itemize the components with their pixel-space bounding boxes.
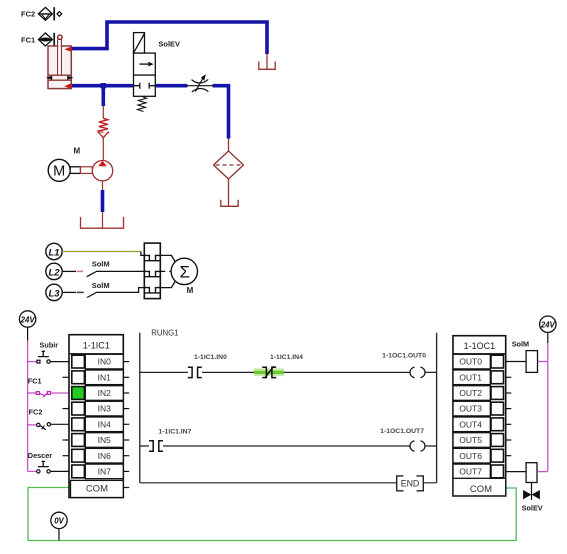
svg-text:OUT2: OUT2 [459,388,482,398]
wire L2 with red mark [62,270,76,272]
svg-text:OUT5: OUT5 [459,435,482,445]
input module row IN0 [85,354,123,369]
input module row IN7 [85,464,123,479]
svg-text:1-1OC1: 1-1OC1 [464,341,496,351]
svg-text:RUNG1: RUNG1 [151,328,178,337]
svg-text:M: M [187,286,194,295]
svg-text:OUT3: OUT3 [459,404,482,414]
ladder right rail [436,333,438,483]
svg-text:OUT6: OUT6 [459,451,482,461]
output module row OUT3 [453,401,490,416]
motor M1 (sigma) [171,258,197,284]
wire: magenta bus left [27,341,29,472]
ladder bottom wire [140,482,437,484]
input module row IN1 [85,370,123,385]
svg-text:END: END [401,479,420,489]
wire: magenta bus right [547,343,549,472]
contact 1-1IC1.IN7 [149,441,153,451]
input module row IN3 [85,401,123,416]
output module row OUT5 [453,433,490,448]
overload element row 3 [144,288,160,293]
node: junction dot on bottom hose [101,83,106,88]
relief line red [102,106,104,118]
svg-text:OUT1: OUT1 [459,372,482,382]
svg-text:IN4: IN4 [98,419,112,429]
svg-text:24V: 24V [540,321,556,330]
svg-text:FC1: FC1 [21,35,35,44]
wire: stub under 24V [27,327,29,340]
svg-text:Σ: Σ [180,263,191,282]
input module COM row [71,480,124,497]
cylinder C1 body [48,46,71,89]
terminal L1 [46,243,62,259]
contact SolM on L2 [87,272,96,277]
rung 1 wire [140,371,437,373]
check seat V [99,133,108,138]
svg-text:M: M [53,164,65,180]
svg-text:OUT4: OUT4 [459,419,482,429]
END block [397,476,404,491]
output module row OUT1 [453,370,490,385]
svg-text:IN0: IN0 [98,357,112,367]
svg-text:OUT0: OUT0 [459,357,482,367]
overload element row 1 [144,255,160,260]
cam arrow right (black) [67,76,73,80]
wire L3 with navy mark [62,291,76,293]
svg-text:L2: L2 [48,267,60,278]
svg-text:L1: L1 [48,248,59,259]
overload relay block [144,243,160,299]
wire: blue hose flow control to filter [213,86,229,139]
svg-text:SolM: SolM [92,260,110,269]
input module row IN6 [85,448,123,463]
cylinder rod tip circle [58,35,62,39]
cam arrow left (black) [46,76,52,80]
input module row IN4 [85,417,123,432]
svg-text:IN1: IN1 [98,372,112,382]
cylinder piston [48,75,71,80]
svg-text:24V: 24V [20,315,36,324]
svg-text:FC1: FC1 [28,376,42,385]
svg-text:IN3: IN3 [98,404,112,414]
svg-text:SolM: SolM [512,339,529,348]
wire: blue hose cylinder top port to upper tank [72,22,267,54]
svg-text:Descer: Descer [28,451,53,460]
coupling motor-pump [70,167,80,174]
svg-text:FC2: FC2 [29,407,43,416]
power supply 24V left [19,311,35,327]
solenoid SolEV output [506,471,526,473]
contact 1-1IC1.IN4 (NC) [262,367,266,377]
svg-text:1-1OC1.OUT7: 1-1OC1.OUT7 [380,428,424,435]
contact SolM on L3 [87,293,96,298]
svg-text:COM: COM [470,484,492,495]
coil 1-1OC1.OUT7 [410,441,415,452]
valve position 1 arrow [139,63,149,65]
PLC input module 1-1IC1 [69,335,123,498]
rung 2 wire [140,445,437,447]
PLC output module 1-1OC1 [453,336,506,496]
wire block to motor bottom [160,279,177,288]
svg-text:L3: L3 [48,288,60,299]
wire: blue drop from junction to relief line [102,87,106,106]
highlight green on IN4 [254,368,284,376]
relief spring [99,118,108,132]
wire: green COM bus [28,488,516,541]
output module COM row [453,478,506,496]
port arrow top (red) [64,47,71,52]
output module row OUT2 [453,386,490,401]
svg-text:IN7: IN7 [98,467,112,477]
output module row OUT6 [453,448,490,463]
svg-text:1-1OC1.OUT0: 1-1OC1.OUT0 [382,353,426,360]
valve SolEV : body boxes [134,53,156,96]
wire L1 olive [62,251,141,253]
svg-text:IN5: IN5 [98,435,112,445]
output module row OUT7 [453,464,490,479]
wire: blue hose cylinder bottom port to valve [72,84,133,88]
svg-text:1-1IC1: 1-1IC1 [83,340,110,350]
svg-text:SolEV: SolEV [158,39,180,48]
cylinder rod [58,40,62,76]
coil 1-1OC1.OUT0 [410,367,415,378]
svg-text:COM: COM [86,484,108,495]
wire block to motor top [160,255,177,264]
svg-text:1-1IC1.IN0: 1-1IC1.IN0 [194,354,227,361]
ladder left rail [139,333,141,483]
valve SolEV : solenoid box [134,33,145,54]
power supply 24V right [540,316,556,332]
port arrow bottom (red) [64,83,71,88]
wire: blue hose valve to flow control [156,84,188,88]
limit switch cam FC2 [38,7,61,20]
tank upper right [259,54,275,69]
power supply 0V [51,512,67,528]
flow control valve [187,78,213,92]
svg-text:1-1IC1.IN7: 1-1IC1.IN7 [159,429,192,436]
svg-text:FC2: FC2 [21,10,35,19]
overload element row 2 [144,271,160,276]
svg-text:0V: 0V [54,517,64,526]
valve symbol under SolEV [531,483,533,501]
line spring to pump [102,138,104,161]
svg-text:IN2: IN2 [98,388,112,398]
svg-text:OUT7: OUT7 [459,467,482,477]
pump P1 [92,161,112,181]
svg-text:IN6: IN6 [98,451,112,461]
electric motor M circle [48,159,70,181]
contact 1-1IC1.IN0 [188,367,192,377]
tank under pump [81,217,124,228]
valve spring [138,96,147,111]
pump outlet to tank [102,181,104,190]
filter F1 [214,139,244,207]
output module row OUT0 [453,354,490,369]
input module row IN5 [85,433,123,448]
valve position 2 blocked ports [134,83,156,89]
wire block to motor mid dashed [160,270,171,272]
svg-text:1-1IC1.IN4: 1-1IC1.IN4 [270,354,303,361]
wire: blue suction segment [101,190,105,212]
svg-text:Subir: Subir [40,340,59,349]
terminal L2 [46,263,62,279]
input module row IN2 [85,386,123,401]
svg-text:SolM: SolM [92,281,110,290]
svg-text:M: M [74,147,81,156]
output module row OUT4 [453,417,490,432]
terminal L3 [46,284,62,300]
limit switch cam FC1 [38,33,54,46]
svg-text:SolEV: SolEV [522,503,543,512]
